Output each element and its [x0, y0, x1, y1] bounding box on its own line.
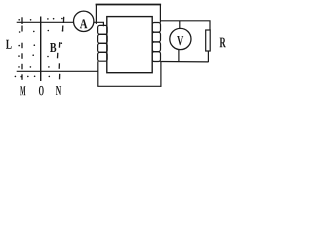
wire R bottom lead [207, 51, 209, 62]
wire ammeter to coil lead [94, 22, 104, 26]
ammeter A1 circle [74, 11, 94, 31]
voltmeter V1 circle [170, 28, 191, 49]
label M [20, 86, 25, 95]
wire right lower vertical [160, 62, 162, 87]
wire primary coil bottom lead / left outer vertical [97, 61, 99, 86]
wire vertical junction x96 [95, 5, 97, 24]
primary coil loops (left) [98, 25, 108, 61]
label A (ammeter) [80, 19, 88, 28]
label R [220, 38, 226, 48]
rod (slider) [40, 17, 42, 82]
wire secondary top to V and R [160, 21, 210, 30]
label L [6, 40, 12, 49]
wire right upper vertical [159, 5, 161, 23]
wire bottom outer [97, 85, 161, 87]
wire bottom rail [17, 70, 98, 72]
label V (voltmeter) [177, 36, 183, 45]
field dots (B out of page) [15, 18, 64, 78]
wire top outer [96, 4, 162, 6]
transformer core box [107, 17, 152, 73]
label N [56, 86, 61, 95]
secondary coil loops (right) [152, 23, 160, 62]
label B [50, 43, 56, 52]
field boundary dashed line left [21, 17, 23, 80]
wire secondary bottom [160, 61, 208, 63]
wire top rail [17, 21, 74, 23]
label O [39, 86, 44, 95]
resistor R rectangle [206, 30, 211, 51]
wire V bottom lead [178, 50, 180, 63]
wire V top lead [179, 21, 181, 29]
field boundary dashed line right [58, 17, 64, 80]
